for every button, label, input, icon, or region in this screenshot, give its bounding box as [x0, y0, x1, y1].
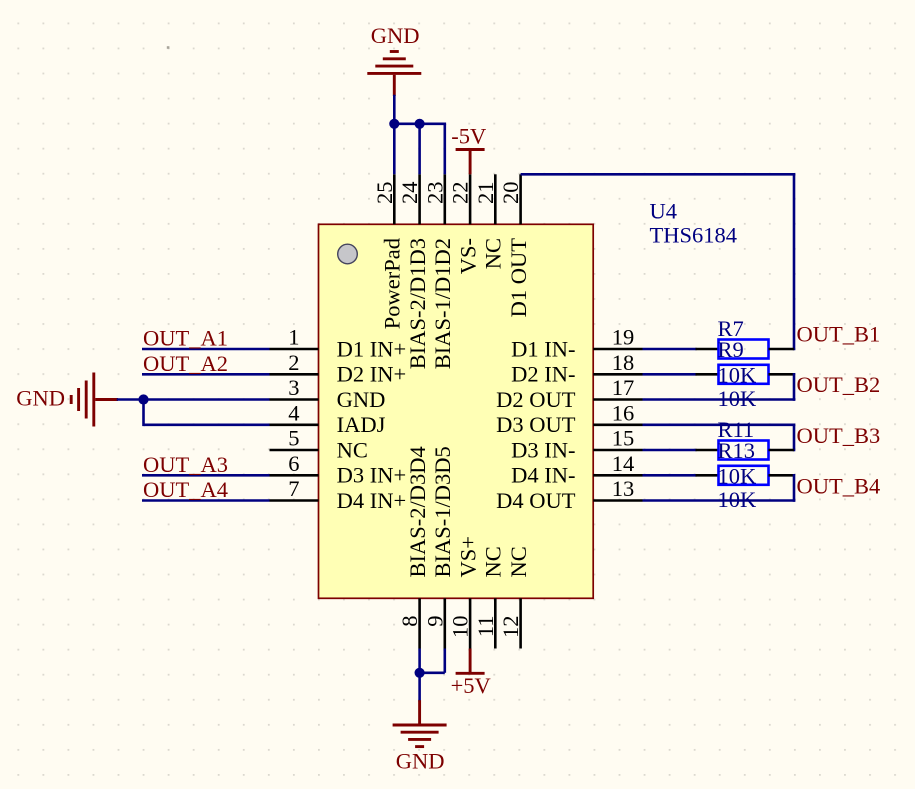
- svg-text:GND: GND: [16, 385, 65, 410]
- junction pin25/GND: [389, 119, 399, 129]
- svg-text:D3 IN-: D3 IN-: [511, 437, 575, 462]
- svg-text:OUT_B1: OUT_B1: [797, 322, 881, 347]
- pin 16 D3 OUT: [496, 400, 642, 437]
- svg-text:2: 2: [288, 350, 299, 375]
- svg-text:23: 23: [422, 182, 447, 205]
- wire pin20 D1 OUT loop to OUT_B1: [521, 174, 796, 350]
- svg-text:R9: R9: [718, 337, 744, 362]
- pin 14 D4 IN-: [511, 451, 642, 488]
- svg-text:20: 20: [498, 182, 523, 205]
- op-amp U4 THS6184 IC body: [319, 224, 594, 598]
- svg-text:OUT_A2: OUT_A2: [143, 351, 228, 376]
- wire pin 14 to R13: [643, 474, 697, 477]
- svg-text:PowerPad: PowerPad: [380, 238, 405, 329]
- svg-text:7: 7: [288, 476, 299, 501]
- pin 25 PowerPad: [372, 174, 405, 329]
- wire OUT_A4 to pin 7: [142, 499, 270, 502]
- svg-text:-5V: -5V: [451, 124, 486, 149]
- wire OUT_A3 to pin 6: [142, 474, 270, 477]
- svg-text:D1 IN-: D1 IN-: [511, 336, 575, 361]
- svg-text:R13: R13: [718, 438, 756, 463]
- svg-text:NC: NC: [481, 238, 506, 269]
- ground GND top: [367, 52, 421, 97]
- svg-text:OUT_B3: OUT_B3: [797, 423, 881, 448]
- pin 23 BIAS-1/D1D2: [422, 174, 455, 369]
- svg-text:BIAS-2/D3D4: BIAS-2/D3D4: [405, 446, 430, 577]
- pin 9 BIAS-1/D3D5: [422, 446, 455, 648]
- wire pin 18 to R9: [643, 373, 697, 376]
- resistor R11: [696, 441, 795, 460]
- ground GND left: [71, 373, 118, 427]
- wire GND left to pin 3 and pin 4: [117, 400, 270, 427]
- svg-text:BIAS-2/D1D3: BIAS-2/D1D3: [405, 238, 430, 369]
- svg-text:VS+: VS+: [455, 536, 480, 577]
- wire pin 19 to R7: [643, 348, 697, 351]
- svg-text:OUT_A3: OUT_A3: [143, 452, 228, 477]
- svg-text:4: 4: [288, 400, 299, 425]
- svg-text:21: 21: [473, 182, 498, 205]
- svg-text:24: 24: [397, 182, 422, 205]
- svg-text:GND: GND: [337, 387, 386, 412]
- svg-text:OUT_B2: OUT_B2: [797, 372, 881, 397]
- svg-text:16: 16: [612, 400, 635, 425]
- resistor R9: [696, 365, 795, 384]
- svg-text:BIAS-1/D3D5: BIAS-1/D3D5: [430, 446, 455, 577]
- svg-text:13: 13: [612, 476, 635, 501]
- svg-text:8: 8: [397, 616, 422, 627]
- svg-text:10K: 10K: [718, 386, 758, 411]
- svg-text:25: 25: [372, 182, 397, 205]
- pin 20 D1 OUT: [498, 174, 531, 317]
- pin 7 D4 IN+: [270, 476, 407, 513]
- pin-1 indicator dot: [338, 244, 358, 264]
- svg-text:10: 10: [448, 616, 473, 639]
- pin 13 D4 OUT: [496, 476, 642, 513]
- pin 17 D2 OUT: [496, 375, 642, 412]
- svg-text:6: 6: [288, 451, 299, 476]
- svg-text:NC: NC: [506, 546, 531, 577]
- svg-text:D2 IN+: D2 IN+: [337, 362, 407, 387]
- svg-text:14: 14: [612, 451, 635, 476]
- wire pins 8/9 to GND bottom: [418, 649, 445, 702]
- pin 3 GND: [270, 375, 386, 412]
- svg-text:5: 5: [288, 426, 299, 451]
- wire R9 down to pin 17 (OUT_B2): [643, 373, 796, 401]
- pin 15 D3 IN-: [511, 426, 642, 463]
- svg-text:D1 OUT: D1 OUT: [506, 238, 531, 318]
- svg-text:OUT_B4: OUT_B4: [797, 474, 881, 499]
- pin 12 NC: [498, 546, 531, 648]
- svg-text:OUT_A1: OUT_A1: [143, 326, 228, 351]
- pin 6 D3 IN+: [270, 451, 407, 488]
- junction pin8/pin9 ground node: [415, 668, 425, 678]
- wire pin 16 down to pin 15 node (OUT_B3): [643, 425, 796, 452]
- pin 8 BIAS-2/D3D4: [397, 446, 430, 648]
- svg-text:1: 1: [288, 325, 299, 350]
- power port -5V: [456, 150, 485, 175]
- pin 4 IADJ: [270, 400, 386, 437]
- svg-text:11: 11: [473, 616, 498, 638]
- svg-text:18: 18: [612, 350, 635, 375]
- svg-text:D4 IN+: D4 IN+: [337, 488, 407, 513]
- svg-text:D4 IN-: D4 IN-: [511, 463, 575, 488]
- junction pin24: [415, 119, 425, 129]
- svg-text:D2 OUT: D2 OUT: [496, 387, 576, 412]
- svg-text:THS6184: THS6184: [650, 223, 738, 248]
- svg-text:NC: NC: [337, 437, 368, 462]
- svg-text:OUT_A4: OUT_A4: [143, 477, 228, 502]
- svg-text:VS-: VS-: [455, 238, 480, 274]
- pin 18 D2 IN-: [511, 350, 642, 387]
- svg-text:10K: 10K: [718, 464, 758, 489]
- svg-text:NC: NC: [481, 546, 506, 577]
- pin 2 D2 IN+: [270, 350, 407, 387]
- svg-text:+5V: +5V: [451, 673, 491, 698]
- svg-text:IADJ: IADJ: [337, 412, 386, 437]
- svg-text:19: 19: [612, 325, 635, 350]
- svg-text:BIAS-1/D1D2: BIAS-1/D1D2: [430, 238, 455, 369]
- svg-text:U4: U4: [650, 198, 678, 223]
- wire pin 15 to R11: [643, 449, 697, 452]
- svg-text:12: 12: [498, 616, 523, 639]
- wire OUT_A2 to pin 2: [142, 373, 270, 376]
- svg-text:15: 15: [612, 426, 635, 451]
- pin 19 D1 IN-: [511, 325, 642, 362]
- pin 1 D1 IN+: [270, 325, 407, 362]
- svg-text:GND: GND: [396, 749, 445, 774]
- svg-text:D4 OUT: D4 OUT: [496, 488, 576, 513]
- pin 10 VS+: [448, 536, 481, 648]
- wire OUT_A1 to pin 1: [142, 348, 270, 351]
- pin 24 BIAS-2/D1D3: [397, 174, 430, 369]
- ground GND bottom: [393, 700, 447, 746]
- pin 22 VS-: [448, 174, 481, 274]
- svg-text:22: 22: [448, 182, 473, 205]
- svg-text:D3 IN+: D3 IN+: [337, 463, 407, 488]
- pin 21 NC: [473, 174, 506, 269]
- wire GND top to pins 25/24/23: [393, 95, 446, 175]
- svg-text:D3 OUT: D3 OUT: [496, 412, 576, 437]
- power port +5V: [456, 649, 485, 674]
- wire R13 down to pin 13 (OUT_B4): [643, 474, 796, 502]
- svg-text:9: 9: [422, 616, 447, 627]
- svg-text:10K: 10K: [718, 363, 758, 388]
- svg-text:17: 17: [612, 375, 635, 400]
- resistor R13: [696, 466, 795, 485]
- junction GND/pin3/pin4 node: [138, 394, 148, 404]
- svg-text:3: 3: [288, 375, 299, 400]
- svg-text:D2 IN-: D2 IN-: [511, 362, 575, 387]
- resistor R7: [696, 340, 795, 359]
- svg-text:D1 IN+: D1 IN+: [337, 336, 407, 361]
- svg-text:GND: GND: [371, 23, 420, 48]
- pin 5 NC: [270, 426, 368, 463]
- pin 11 NC: [473, 546, 506, 648]
- svg-text:10K: 10K: [718, 487, 758, 512]
